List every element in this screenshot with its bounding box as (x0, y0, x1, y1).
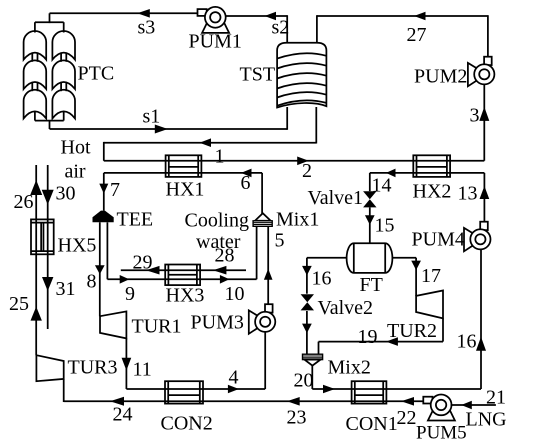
svg-text:Valve1: Valve1 (308, 187, 364, 209)
svg-text:Cooling: Cooling (185, 210, 249, 232)
wire s2 riser into TST (286, 15, 288, 43)
heat exchanger HX2 (413, 155, 450, 177)
label Mix1 (276, 209, 319, 231)
wire 16 right column with arrow (457, 249, 487, 389)
label HX3 (166, 285, 205, 307)
svg-text:PTC: PTC (78, 63, 115, 85)
TST thermal storage tank (277, 43, 326, 108)
wire 22 with arrow (386, 397, 422, 429)
svg-text:1: 1 (215, 146, 225, 168)
valve Valve1 (363, 191, 376, 207)
label TUR3 (68, 357, 118, 379)
svg-text:22: 22 (397, 407, 417, 429)
label Valve1 (308, 187, 364, 209)
svg-text:27: 27 (407, 24, 427, 46)
wire 24 with arrow (64, 397, 165, 426)
label Cooling water (185, 210, 249, 254)
svg-text:air: air (65, 161, 86, 183)
wire 27 with arrow (317, 12, 488, 46)
wire 4 with arrow (203, 367, 265, 394)
pump PUM5 (416, 395, 467, 441)
wire s2 with arrow (226, 12, 290, 39)
label PTC (78, 63, 115, 85)
wire 14 with arrow (370, 169, 414, 197)
svg-text:s1: s1 (143, 106, 161, 128)
svg-text:TEE: TEE (117, 209, 154, 231)
svg-text:7: 7 (110, 179, 120, 201)
wire 21 LNG inlet with arrow (451, 387, 507, 431)
svg-text:11: 11 (133, 359, 152, 381)
svg-text:29: 29 (133, 252, 153, 274)
svg-text:30: 30 (56, 183, 76, 205)
svg-text:LNG: LNG (466, 409, 507, 431)
wire 15 with arrow (365, 207, 395, 243)
wire 23 with arrow (203, 397, 352, 429)
svg-text:21: 21 (486, 387, 506, 409)
svg-text:16: 16 (457, 331, 477, 353)
svg-text:HX5: HX5 (58, 235, 97, 257)
splitter TEE (93, 211, 114, 223)
wire 26 with arrow (14, 165, 43, 355)
heat exchanger HX5 (31, 219, 54, 254)
wire 20 with arrow (294, 365, 352, 393)
heat exchanger HX1 (166, 155, 202, 177)
turbine TUR2 (416, 291, 443, 319)
wire 9 with arrow (107, 222, 165, 305)
wire s1 riser from TST bottom (286, 107, 288, 130)
svg-text:20: 20 (294, 370, 314, 392)
wire TUR3 inlet from line 24 (63, 379, 65, 402)
svg-text:3: 3 (470, 105, 480, 127)
wire 25 arrow (9, 293, 42, 321)
wire Valve2 outlet with arrow (302, 311, 312, 354)
svg-text:31: 31 (56, 278, 76, 300)
svg-text:2: 2 (302, 160, 312, 182)
wire 31 arrow (42, 277, 76, 300)
wire HX2 top outlet riser (450, 160, 484, 162)
svg-text:5: 5 (275, 230, 285, 252)
wire 17 with arrow (392, 258, 441, 296)
svg-text:10: 10 (225, 283, 245, 305)
svg-text:Mix1: Mix1 (276, 209, 319, 231)
label Valve2 (318, 297, 374, 319)
svg-text:HX2: HX2 (413, 181, 452, 203)
label HX1 (166, 179, 205, 201)
flash tank FT (347, 243, 393, 273)
wire s1 with arrow (50, 106, 288, 134)
wire Mix1 inlet from line 6 (261, 214, 263, 215)
svg-text:16: 16 (312, 268, 332, 290)
svg-text:CON1: CON1 (346, 413, 398, 435)
PTC solar collector troughs (24, 22, 75, 120)
condenser CON2 (165, 381, 203, 403)
mixer Mix2 (303, 354, 323, 365)
heat exchanger HX3 (165, 265, 200, 286)
PTC bottom manifold pipe (35, 121, 64, 129)
label TEE (117, 209, 154, 231)
svg-text:8: 8 (87, 271, 97, 293)
wire 11 with arrow (122, 338, 165, 389)
wire 1 with arrow (104, 107, 316, 168)
label FT (360, 274, 383, 296)
condenser CON1 (352, 381, 387, 403)
mixer Mix1 (253, 213, 272, 226)
wire 16 with arrow (302, 258, 347, 294)
wire 7 with arrow (99, 173, 165, 211)
turbine TUR1 (100, 311, 126, 338)
wire 2 with arrow (201, 157, 413, 183)
svg-text:PUM1: PUM1 (189, 31, 242, 53)
pump PUM3 (191, 304, 276, 334)
wire 28 cooling water in with arrow (200, 245, 246, 275)
svg-text:water: water (196, 231, 241, 253)
wire s3 with arrow (50, 9, 198, 39)
svg-text:s3: s3 (138, 17, 156, 39)
turbine TUR3 (36, 355, 63, 381)
svg-text:Hot: Hot (61, 137, 91, 159)
svg-text:26: 26 (14, 191, 34, 213)
wire PUM3 suction from line 4 (264, 332, 266, 389)
pump PUM2 (414, 57, 494, 88)
svg-text:23: 23 (287, 407, 307, 429)
label HX5 (58, 235, 97, 257)
wire 3 with arrow (470, 84, 490, 161)
wire 5 with arrow (264, 226, 285, 305)
pump PUM1 (189, 7, 242, 53)
valve Valve2 (301, 294, 314, 310)
label TST (240, 64, 276, 86)
wire 27 riser into TST top (316, 15, 318, 43)
svg-text:4: 4 (229, 367, 239, 389)
svg-text:PUM4: PUM4 (412, 229, 465, 251)
label HX2 (413, 181, 452, 203)
svg-text:24: 24 (113, 404, 133, 426)
svg-text:PUM2: PUM2 (414, 66, 467, 88)
wire 29 cooling water out with arrow (121, 252, 165, 275)
svg-text:TST: TST (240, 64, 276, 86)
PTC top manifold pipe (35, 13, 64, 23)
wire 8 with arrow (87, 222, 105, 316)
wire 6 with arrow (201, 169, 262, 215)
label TUR2 (387, 320, 437, 342)
label CON1 (346, 413, 398, 435)
svg-text:25: 25 (9, 293, 29, 315)
wire 13 with arrow (450, 173, 489, 221)
svg-text:PUM3: PUM3 (191, 312, 244, 334)
svg-text:15: 15 (375, 215, 395, 237)
svg-text:TUR3: TUR3 (68, 357, 118, 379)
svg-text:Valve2: Valve2 (318, 297, 374, 319)
wire 19 with arrow (319, 318, 444, 354)
svg-text:6: 6 (241, 172, 251, 194)
svg-text:17: 17 (421, 265, 441, 287)
wire PUM2 inlet riser (487, 15, 489, 57)
wire 10 with arrow (200, 226, 257, 305)
wire HX1 top inlet (104, 142, 166, 161)
label CON2 (161, 413, 213, 435)
svg-text:FT: FT (360, 274, 383, 296)
label Mix2 (328, 357, 371, 379)
svg-text:19: 19 (358, 326, 378, 348)
svg-text:HX1: HX1 (166, 179, 205, 201)
svg-text:PUM5: PUM5 (416, 423, 467, 441)
label TUR1 (132, 316, 182, 338)
pump PUM4 (412, 222, 491, 252)
svg-text:CON2: CON2 (161, 413, 213, 435)
svg-text:HX3: HX3 (166, 285, 205, 307)
svg-text:13: 13 (458, 183, 478, 205)
svg-text:9: 9 (125, 283, 135, 305)
label Hot air (61, 137, 91, 183)
svg-text:Mix2: Mix2 (328, 357, 371, 379)
svg-text:TUR1: TUR1 (132, 316, 182, 338)
wire CON1 top outlet to riser (386, 388, 481, 390)
wire 30 with arrow (42, 165, 76, 329)
